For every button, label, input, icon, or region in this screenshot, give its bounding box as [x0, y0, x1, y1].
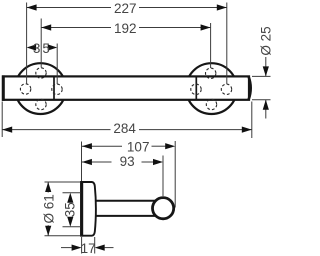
side view arm top line	[93, 200, 158, 202]
extension line right E hole	[226, 3, 228, 85]
dimension D25 arrow down	[263, 66, 269, 76]
svg-text:284: 284	[113, 121, 136, 136]
bar cross-section circle	[153, 198, 174, 219]
extension line 35 top	[63, 192, 81, 194]
right flange hole W	[191, 84, 201, 94]
dimension D25 extension top	[252, 75, 271, 77]
dimension 284 arrow left	[2, 127, 12, 133]
dimension D25 extension bottom	[252, 99, 271, 101]
right flange circle	[186, 63, 237, 114]
bar right end cap	[249, 77, 251, 100]
svg-text:Ø 25: Ø 25	[258, 26, 273, 55]
left flange hole E	[52, 84, 62, 94]
dimension 192 arrow right	[201, 24, 211, 30]
dimension 93 arrow left	[82, 159, 92, 165]
dimension 284 line	[3, 129, 111, 131]
dimension D61 line bottom	[47, 225, 49, 236]
extension line left N hole	[40, 19, 42, 68]
right flange hole E	[221, 84, 231, 94]
dimension 35 side arrow up	[67, 193, 73, 203]
extension line D61 bottom	[45, 235, 81, 237]
dimension 192 line	[41, 27, 111, 29]
dimension 107 line	[82, 145, 122, 147]
dimension 192 arrow left	[41, 24, 51, 30]
side view arm bottom line	[93, 215, 158, 217]
extension line D61 top	[45, 181, 81, 183]
extension line left E hole	[56, 44, 58, 85]
left flange hole W	[20, 84, 30, 94]
dimension 227 arrow right	[217, 4, 227, 10]
svg-text:35: 35	[63, 202, 78, 217]
extension line wall plate top	[81, 142, 83, 182]
svg-text:227: 227	[114, 1, 137, 16]
dimension 227 line	[27, 7, 111, 9]
dimension D61 arrow down	[45, 226, 51, 236]
svg-text:3: 3	[33, 41, 41, 56]
extension line left W hole	[26, 3, 28, 85]
svg-text:93: 93	[120, 154, 135, 169]
left flange hole N	[36, 68, 46, 78]
svg-text:Ø 61: Ø 61	[41, 194, 56, 223]
dimension 35 arrow right	[48, 44, 58, 50]
dimension 17 arrow left-pointing	[95, 245, 105, 251]
extension line right N hole	[210, 23, 212, 68]
dimension 227 arrow left	[27, 4, 37, 10]
svg-text:107: 107	[127, 140, 150, 155]
dimension 107 arrow left	[82, 143, 92, 149]
extension line 93 right	[162, 156, 164, 197]
dimension D61 arrow up	[45, 182, 51, 192]
wall plate left edge	[81, 181, 84, 237]
dimension 93 arrow right	[153, 159, 163, 165]
dimension D25 arrow up	[263, 100, 269, 110]
right flange hole N	[206, 68, 216, 78]
dimension 17 line left	[61, 247, 72, 249]
svg-text:17: 17	[81, 241, 96, 256]
extension line 284 right	[251, 102, 253, 139]
dimension 284 arrow right	[242, 127, 252, 133]
svg-text:192: 192	[114, 21, 137, 36]
left flange circle	[15, 63, 66, 114]
dimension 35 arrow left	[27, 44, 36, 50]
dimension 17 line right	[105, 247, 114, 249]
extension line 17 left	[81, 237, 83, 254]
grab bar body	[3, 76, 249, 99]
dimension D25 line top	[265, 57, 267, 76]
dimension 35 side arrow down	[67, 217, 73, 227]
dimension 107 arrow right	[165, 143, 175, 149]
dimension 17 arrow right-pointing	[72, 245, 82, 251]
bar joint line left	[53, 76, 55, 99]
dimension D61 line top	[47, 182, 49, 193]
bar left end edge	[2, 75, 5, 100]
bar joint line right	[195, 76, 197, 99]
extension line 107 right	[174, 141, 176, 208]
dimension D25 line bottom	[265, 100, 267, 119]
right flange hole S	[206, 99, 216, 109]
dimension 93 line	[82, 161, 112, 163]
left flange hole S	[36, 99, 46, 109]
extension line 17 right	[94, 237, 96, 254]
wall plate side view	[81, 182, 96, 236]
extension line 35 bottom	[63, 226, 81, 228]
extension line 284 left	[1, 102, 3, 138]
svg-text:5: 5	[42, 41, 50, 56]
